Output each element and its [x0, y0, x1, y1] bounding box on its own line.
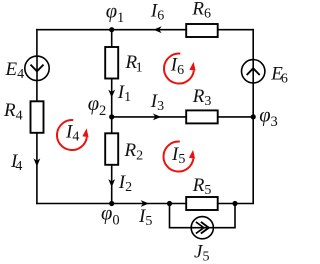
resistor R5 [186, 175, 218, 210]
loop current I5 red arc [163, 142, 195, 172]
loop current I4 red arc [57, 120, 89, 150]
svg-text:J5: J5 [194, 242, 209, 264]
svg-text:φ2: φ2 [88, 93, 107, 119]
svg-text:R6: R6 [191, 0, 211, 22]
resistor R6 [186, 0, 218, 37]
node phi0 [101, 201, 120, 229]
wire right rail [252, 29, 254, 204]
wire left rail [36, 29, 38, 204]
loop current I6 red arc [164, 54, 196, 84]
svg-text:I4: I4 [65, 121, 79, 144]
svg-text:I4: I4 [10, 151, 22, 174]
svg-text:I6: I6 [150, 0, 164, 23]
source E4 [5, 56, 50, 82]
node phi2 [88, 93, 115, 120]
junction dot right of J5 [232, 201, 237, 206]
svg-text:R5: R5 [192, 175, 212, 198]
svg-text:I5: I5 [138, 206, 152, 229]
svg-text:I3: I3 [150, 91, 164, 114]
wire top rail [36, 29, 253, 31]
node phi3 [251, 104, 278, 129]
svg-text:φ3: φ3 [259, 104, 278, 129]
svg-text:R1: R1 [125, 52, 143, 75]
current arrow I1 [108, 82, 131, 105]
resistor R1 [105, 47, 142, 79]
source E6 [242, 60, 288, 87]
svg-text:E6: E6 [270, 63, 288, 86]
current arrow I5 [138, 200, 152, 229]
current arrow I4 [10, 151, 40, 174]
junction dot left of J5 [167, 201, 172, 206]
current arrow I2 [108, 172, 132, 195]
svg-text:R4: R4 [3, 100, 23, 123]
resistor R4 [3, 100, 44, 133]
wire bottom rail [36, 203, 253, 205]
resistor R2 [105, 133, 143, 165]
svg-text:R2: R2 [124, 140, 144, 163]
current source J5 [191, 217, 213, 264]
current arrow I3 [150, 91, 164, 120]
wire middle vertical [111, 30, 113, 204]
wire J5 branch [170, 204, 236, 228]
svg-text:φ1: φ1 [106, 0, 125, 26]
svg-text:I5: I5 [171, 144, 185, 167]
svg-text:E4: E4 [5, 59, 25, 82]
current arrow I6 [150, 0, 164, 33]
svg-text:φ0: φ0 [101, 203, 120, 229]
svg-text:I1: I1 [117, 82, 131, 105]
svg-text:R3: R3 [192, 86, 212, 109]
wire middle horizontal [112, 116, 254, 118]
node phi1 [106, 0, 125, 32]
svg-text:I6: I6 [170, 55, 184, 78]
resistor R3 [186, 86, 218, 124]
svg-text:I2: I2 [118, 172, 132, 195]
